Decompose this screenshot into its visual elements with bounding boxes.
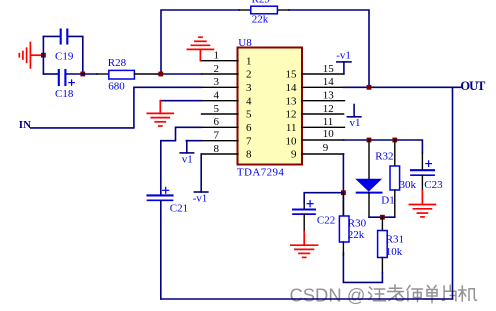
svg-text:1: 1 [246,55,252,67]
capacitor C23 plates (polarized) [411,170,434,175]
resistor R31 body [378,231,388,258]
svg-text:R28: R28 [108,57,127,69]
capacitor C21 plus sign [163,187,169,193]
ground symbol under C22 (red) [291,232,318,258]
svg-text:30k: 30k [400,179,417,191]
wire pin 8 down to -v1 power [200,154,202,192]
svg-text:U8: U8 [238,37,252,49]
wire feedback top rail from node R28/pin2 up and across to OUT node [161,10,369,87]
power symbol v1 near pin 12 [347,105,361,117]
power symbol -v1 at pin 8 [194,191,207,193]
svg-text:TDA7294: TDA7294 [237,166,285,178]
svg-text:1: 1 [214,50,220,62]
ground symbol under C23 (red) [409,191,435,217]
svg-text:CSDN @: CSDN @ [290,285,366,306]
U8 pin 10 stub [302,139,344,141]
svg-text:3: 3 [214,76,220,88]
svg-text:10: 10 [286,135,298,147]
wire C19 right branch down to node B [68,36,82,74]
capacitor C22 bottom lead [303,214,305,231]
U8 pin 1 stub [202,60,239,62]
diode D1 triangle [355,179,382,192]
svg-text:C22: C22 [317,215,335,227]
U8 pin 11 stub unconnected [302,126,345,128]
capacitor C18 plates (polarized) [59,70,66,85]
capacitor C18 plus sign [69,80,74,85]
svg-text:15: 15 [286,69,298,81]
svg-text:C21: C21 [170,202,188,214]
svg-text:7: 7 [214,130,220,142]
diode D1 top lead [368,140,370,179]
svg-text:14: 14 [286,82,298,94]
U8 pin 4 stub [202,100,239,102]
wire mute node to C22 [304,193,343,203]
capacitor C23 plus sign [426,161,432,167]
resistor R28 body [109,70,135,79]
wire IN to pin 3 [31,87,202,128]
svg-text:8: 8 [214,143,220,155]
svg-text:-v1: -v1 [193,192,208,204]
svg-text:R31: R31 [386,234,404,246]
svg-text:11: 11 [286,122,297,134]
wire node A vertical between C19 and C18 [42,36,44,74]
svg-text:R30: R30 [348,217,367,229]
svg-text:v1: v1 [350,117,361,129]
svg-text:C19: C19 [55,51,74,63]
wire C21 down to bottom rail [160,200,162,299]
svg-text:13: 13 [286,95,298,107]
svg-text:9: 9 [291,149,297,161]
capacitor C19 plates [61,30,68,44]
svg-text:8: 8 [246,149,252,161]
node junction dot B (C18/C19 right to R28) [80,72,85,77]
ground symbol at pin 4 (red) [147,101,173,126]
node junction dot pin10/R32 [392,138,397,143]
wire C19 top branch [43,35,59,37]
svg-text:v1: v1 [182,153,193,165]
resistor R30 bottom lead [342,242,344,255]
wire pin 14 to OUT port [344,86,461,88]
svg-text:10k: 10k [386,246,403,258]
diode D1 cathode bar [357,192,382,194]
capacitor C22 plus sign [307,201,313,207]
U8 pin 3 stub [202,86,239,88]
wire node B to R28 [67,73,98,75]
svg-text:11: 11 [323,116,334,128]
resistor R31 top lead [381,217,383,230]
svg-text:22k: 22k [348,229,365,241]
wire bottom rail [161,298,453,300]
diode D1 bottom lead [368,193,370,218]
node junction dot OUT / feedback [367,85,372,90]
wire pin 6 jog down to C21 [161,127,202,194]
svg-text:13: 13 [323,90,335,102]
svg-text:6: 6 [246,122,252,134]
svg-text:12: 12 [323,103,334,115]
U8 pin 9 stub [302,153,344,155]
wire pin 10 rail to C23 [344,140,423,153]
svg-text:C18: C18 [55,88,74,100]
svg-text:OUT: OUT [460,79,486,93]
resistor R29 right lead [277,9,289,11]
ground symbol above pin 1 (inverted, red) [187,37,213,61]
U8 pin 8 stub [202,153,239,155]
capacitor C22 top lead [303,203,305,210]
watermark chinese glyphs (drawn strokes) [369,285,477,303]
node junction dot pin9/C22/R30 [341,190,346,195]
capacitor C23 top lead [421,153,423,170]
U8 pin 2 stub [202,73,239,75]
node junction dot at ground / C19 / C18 net [41,53,46,58]
svg-text:2: 2 [246,69,252,81]
svg-text:-v1: -v1 [336,50,351,62]
U8 pin 13 stub unconnected [302,100,345,102]
resistor R32 body [390,166,400,190]
IC U8 body TDA7294 [238,48,303,165]
ground symbol at input node (sideways, red) [19,43,43,68]
wire R28 to pin 2 [158,73,202,75]
svg-text:4: 4 [214,90,220,102]
U8 pin 15 stub [302,73,344,75]
resistor R29 body [251,6,278,14]
resistor R29 left lead [239,9,251,11]
wire right rail up to OUT line [452,87,454,299]
node junction dot feedback tap on pin2 wire [158,72,163,77]
svg-text:3: 3 [246,82,252,94]
svg-text:6: 6 [214,116,220,128]
power symbol v1 at pin 7 [180,141,193,153]
svg-text:15: 15 [323,63,335,75]
resistor R30 top lead [342,193,344,216]
svg-text:5: 5 [246,109,252,121]
svg-text:5: 5 [214,103,220,115]
svg-text:680: 680 [108,80,125,92]
svg-text:9: 9 [323,142,329,154]
capacitor C21 plates (polarized) [148,195,173,200]
resistor R28 left lead [97,73,109,75]
wire C18 left segment [43,73,57,75]
wire R31 bottom to R30 bottom [343,253,382,282]
U8 pin 6 stub [202,126,239,128]
U8 pin 5 stub unconnected [202,113,239,115]
svg-text:IN: IN [19,119,31,131]
resistor R32 top lead [394,140,396,166]
svg-text:R32: R32 [375,151,393,163]
wire D1/R32 bottoms joined [369,216,395,218]
wire pin 9 down to mute node [342,154,344,216]
node junction dot D1/R32/R31 [380,215,385,220]
resistor R30 body [339,216,349,242]
capacitor C23 bottom lead [421,175,423,190]
resistor R28 right lead [134,73,157,75]
U8 pin 12 stub [302,113,344,115]
resistor R31 bottom lead [381,258,383,273]
wire pin 4 to ground [160,100,201,102]
svg-text:10: 10 [323,128,335,140]
svg-text:22k: 22k [252,13,269,25]
node junction dot pin10/D1 [367,138,372,143]
svg-text:C23: C23 [424,179,443,191]
svg-text:2: 2 [214,63,220,75]
wire pin 7 to v1 power [186,140,201,142]
resistor R32 bottom lead [394,190,396,217]
svg-text:14: 14 [323,76,335,88]
svg-text:12: 12 [286,109,297,121]
svg-text:R29: R29 [252,0,271,6]
U8 pin 7 stub [202,140,239,142]
power symbol -v1 at pin 15 [337,62,351,74]
capacitor C22 plates (polarized) [293,210,315,215]
svg-text:4: 4 [246,95,252,107]
svg-text:D1: D1 [381,194,394,206]
U8 pin 14 stub [302,86,344,88]
svg-text:7: 7 [246,135,252,147]
